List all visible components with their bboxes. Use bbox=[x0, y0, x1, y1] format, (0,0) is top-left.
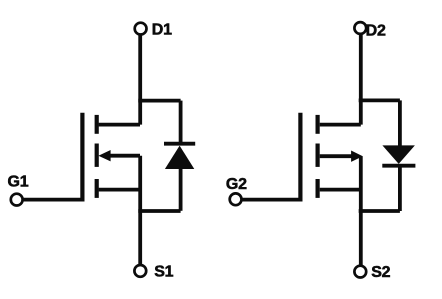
wire source to channel Q2 bbox=[320, 188, 361, 192]
svg-text:G1: G1 bbox=[8, 173, 29, 190]
wire top rail Q2 bbox=[359, 99, 400, 103]
terminal G2 bbox=[230, 193, 242, 205]
wire body line Q2 bbox=[320, 154, 353, 158]
channel middle dash Q2 bbox=[316, 144, 320, 167]
wire diode branch bottom Q2 bbox=[398, 166, 402, 211]
gate bar Q2 bbox=[298, 113, 302, 202]
wire diode branch top Q2 bbox=[398, 100, 402, 146]
channel bottom dash Q1 bbox=[95, 179, 99, 198]
svg-text:S1: S1 bbox=[154, 263, 173, 280]
channel top dash Q1 bbox=[95, 115, 99, 134]
wire D2 drain vertical bbox=[359, 34, 363, 125]
wire body/source junction Q2 bbox=[359, 156, 363, 211]
gate bar Q1 bbox=[80, 113, 84, 202]
wire drain to channel Q2 bbox=[320, 123, 361, 127]
terminal D2 bbox=[354, 22, 366, 34]
wire bottom rail Q2 bbox=[359, 209, 400, 213]
wire diode branch top Q1 bbox=[179, 101, 183, 142]
diode anode triangle Q1 (points up) bbox=[165, 146, 194, 169]
diode cathode bar Q2 bbox=[382, 164, 415, 168]
wire S2 source vertical bbox=[359, 211, 363, 266]
channel bottom dash Q2 bbox=[316, 179, 320, 198]
wire source to channel Q1 bbox=[99, 188, 140, 192]
wire bottom rail Q1 bbox=[138, 209, 180, 213]
diode cathode bar Q1 bbox=[164, 142, 195, 146]
terminal G1 bbox=[11, 194, 23, 206]
wire diode branch bottom Q1 bbox=[179, 169, 183, 211]
wire body/source junction Q1 bbox=[138, 156, 142, 211]
wire G1 to gate Q1 bbox=[23, 198, 85, 202]
body diode of Q2 bbox=[382, 145, 415, 165]
transistor Q2 bbox=[300, 113, 362, 202]
svg-text:G2: G2 bbox=[226, 176, 247, 193]
body diode of Q1 bbox=[164, 144, 195, 169]
wire D1 drain vertical bbox=[138, 34, 142, 124]
svg-text:S2: S2 bbox=[371, 264, 390, 281]
diode anode triangle Q2 (points down) bbox=[382, 145, 415, 164]
wire S1 source vertical bbox=[138, 211, 142, 265]
channel top dash Q2 bbox=[316, 115, 320, 134]
wire body line Q1 bbox=[110, 154, 141, 158]
transistor Q1 bbox=[82, 113, 140, 202]
svg-text:D1: D1 bbox=[152, 21, 172, 38]
body arrow Q2 (points right away from channel) bbox=[351, 151, 363, 162]
channel middle dash Q1 bbox=[95, 144, 99, 167]
terminal D1 bbox=[135, 23, 147, 35]
wire G2 to gate Q2 bbox=[241, 198, 302, 202]
terminal S1 bbox=[134, 265, 146, 277]
body arrow Q1 (points left into channel) bbox=[98, 150, 110, 161]
svg-text:D2: D2 bbox=[366, 23, 386, 40]
wire top rail Q1 bbox=[138, 99, 180, 103]
wire drain to channel Q1 bbox=[99, 123, 140, 127]
terminal S2 bbox=[354, 266, 366, 278]
